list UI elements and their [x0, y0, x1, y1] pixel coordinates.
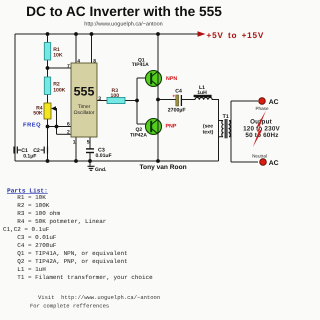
svg-text:C4 = 2700uF: C4 = 2700uF: [3, 242, 57, 249]
svg-text:FREQ: FREQ: [23, 123, 41, 129]
svg-text:8: 8: [93, 58, 96, 64]
svg-text:TIP42A: TIP42A: [130, 133, 147, 139]
svg-text:For complete refferences: For complete refferences: [30, 303, 109, 310]
svg-text:50 to 60Hz: 50 to 60Hz: [245, 132, 278, 139]
svg-text:Neutral: Neutral: [252, 153, 267, 158]
svg-text:AC: AC: [269, 99, 279, 106]
svg-text:6: 6: [67, 122, 70, 128]
svg-text:DC to AC Inverter with the 555: DC to AC Inverter with the 555: [26, 4, 222, 19]
svg-text:NPN: NPN: [166, 76, 177, 82]
svg-text:0.1µF: 0.1µF: [23, 154, 36, 160]
svg-text:text): text): [203, 129, 214, 135]
svg-text:R3 = 100 ohm: R3 = 100 ohm: [3, 210, 60, 217]
svg-text:TIP41A: TIP41A: [132, 62, 149, 68]
svg-text:5: 5: [87, 140, 90, 146]
svg-text:100: 100: [111, 93, 120, 99]
svg-text:0.01uF: 0.01uF: [96, 153, 112, 159]
svg-text:Tony van Roon: Tony van Roon: [140, 164, 187, 171]
svg-text:T1: T1: [223, 114, 229, 120]
svg-text:4: 4: [77, 58, 80, 64]
svg-text:http://www.uoguelph.ca/~antoon: http://www.uoguelph.ca/~antoon: [84, 21, 162, 27]
svg-text:Q2 = TIP42A, PNP, or equivalen: Q2 = TIP42A, PNP, or equivalent: [3, 258, 128, 265]
svg-text:3: 3: [98, 96, 101, 102]
svg-text:T1 = Filament transformer, you: T1 = Filament transformer, your choice: [3, 274, 153, 281]
svg-text:R2 = 100K: R2 = 100K: [3, 202, 50, 209]
svg-text:L1 = 1uH: L1 = 1uH: [3, 266, 46, 273]
svg-text:2700µF: 2700µF: [168, 108, 186, 114]
svg-text:+5V to +15V: +5V to +15V: [207, 31, 265, 40]
svg-text:Phase: Phase: [255, 106, 268, 111]
svg-text:10K: 10K: [53, 52, 63, 58]
svg-text:Gnd.: Gnd.: [95, 167, 107, 173]
svg-text:1: 1: [73, 140, 76, 146]
svg-text:PNP: PNP: [166, 124, 177, 130]
svg-text:7: 7: [67, 63, 70, 69]
svg-text:Oscillator: Oscillator: [74, 110, 95, 116]
svg-text:2: 2: [67, 130, 70, 136]
svg-text:AC: AC: [269, 160, 279, 167]
svg-text:C1,C2 = 0.1uF: C1,C2 = 0.1uF: [3, 226, 50, 233]
svg-text:1uH: 1uH: [197, 90, 207, 96]
svg-text:R4 = 50K potmeter, Linear: R4 = 50K potmeter, Linear: [3, 218, 107, 225]
svg-text:Q1 = TIP41A, NPN, or equivalen: Q1 = TIP41A, NPN, or equivalent: [3, 250, 128, 257]
svg-text:R1 = 10K: R1 = 10K: [3, 194, 46, 201]
svg-text:C4: C4: [175, 88, 182, 94]
svg-text:C3 = 0.01uF: C3 = 0.01uF: [3, 234, 57, 241]
svg-text:50K: 50K: [33, 111, 43, 117]
svg-text:100K: 100K: [53, 87, 65, 93]
svg-text:Visit http://www.uoguelph.ca/: Visit http://www.uoguelph.ca/~antoon: [38, 294, 160, 301]
svg-text:555: 555: [74, 84, 95, 98]
